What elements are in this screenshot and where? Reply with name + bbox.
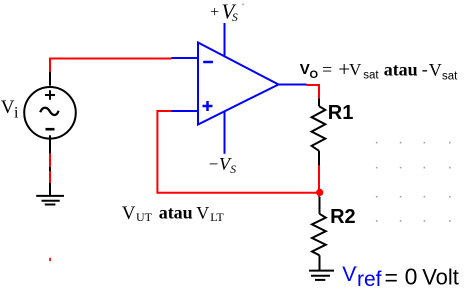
svg-text:LT: LT — [210, 210, 224, 224]
svg-text:ref: ref — [357, 268, 382, 291]
svg-text:O: O — [310, 69, 319, 81]
wire: feedback from + input to node (red) — [157, 111, 316, 193]
wire: black blip on red wire — [49, 167, 51, 171]
stray red dot — [49, 258, 51, 261]
wire: to ground (black) — [49, 183, 51, 195]
svg-text:R1: R1 — [328, 102, 354, 124]
wire: Vi to inverting input (red) — [50, 59, 172, 72]
svg-text:atau: atau — [159, 203, 193, 223]
wire: output to R1 (red) — [307, 85, 320, 98]
svg-text:V: V — [196, 203, 209, 223]
svg-text:−: − — [209, 155, 219, 174]
label VUT atau VLT — [122, 203, 225, 225]
wire: R1 bottom to node (red) — [318, 165, 320, 196]
label +VS — [210, 0, 238, 24]
label Vref = 0 Volt — [342, 263, 459, 291]
label -VS — [209, 154, 237, 176]
svg-text:atau: atau — [384, 60, 418, 80]
wire: Vi bottom lead (black) — [49, 135, 51, 153]
svg-text:V: V — [429, 60, 442, 80]
svg-text:V: V — [342, 263, 356, 286]
svg-text:Volt: Volt — [422, 264, 459, 289]
op-amp non-inverting input marker — [203, 101, 213, 111]
ground (below Vi) — [36, 196, 64, 205]
resistor R2 — [312, 197, 326, 270]
svg-text:S: S — [232, 12, 238, 24]
svg-text:V: V — [300, 61, 310, 78]
svg-text:R2: R2 — [330, 206, 356, 228]
svg-text:V: V — [1, 97, 15, 118]
resistor R1 — [312, 98, 326, 165]
svg-text:UT: UT — [136, 210, 153, 224]
svg-text:-: - — [422, 59, 428, 79]
svg-text:V: V — [122, 203, 136, 224]
svg-text:sat: sat — [363, 69, 379, 81]
label Vi — [1, 97, 19, 121]
wire: Vi bottom red segment — [49, 154, 51, 183]
svg-text:sat: sat — [442, 70, 458, 82]
voltage source Vi — [24, 87, 76, 139]
ground (below R2) — [309, 271, 334, 280]
svg-text:0: 0 — [405, 263, 418, 289]
svg-text:S: S — [230, 164, 236, 176]
op-amp inverting input marker — [203, 61, 213, 64]
svg-text:+: + — [210, 4, 219, 21]
wire: Vi top lead (black) — [49, 72, 51, 86]
label Vo = +Vsat atau -Vsat — [300, 57, 458, 82]
junction node — [316, 189, 323, 196]
svg-text:=: = — [322, 60, 332, 80]
svg-text:=: = — [385, 264, 398, 290]
op-amp U1 — [171, 23, 307, 154]
svg-text:i: i — [14, 105, 19, 122]
svg-text:V: V — [349, 60, 362, 79]
